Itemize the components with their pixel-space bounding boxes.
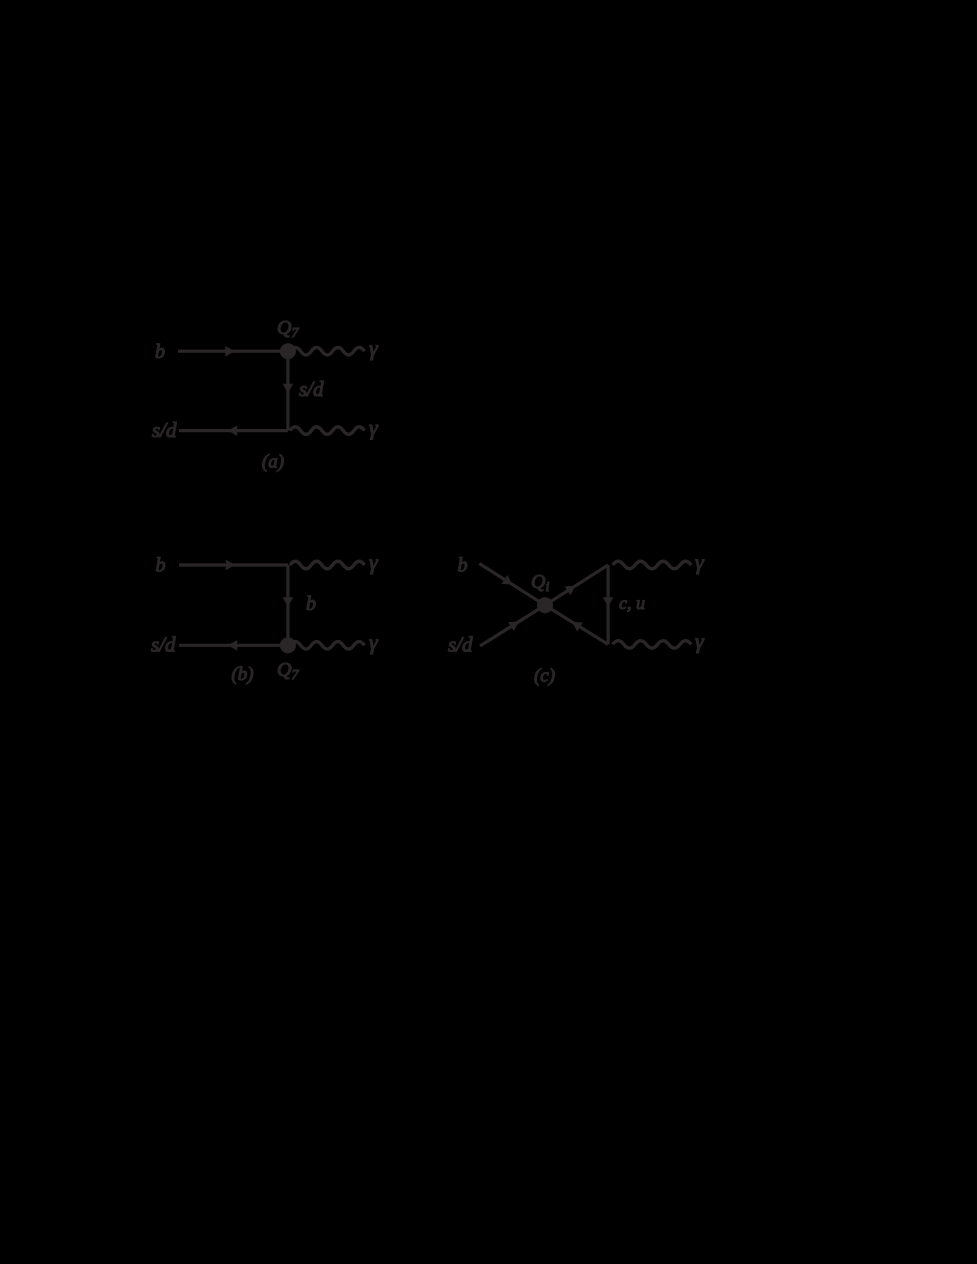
svg-text:γ: γ — [369, 336, 379, 361]
arrow left on s/d line (a) — [228, 425, 238, 436]
wire: loop upper fermion line (c) — [545, 565, 608, 605]
wire: incoming b fermion line (c) — [479, 564, 545, 606]
wire: internal s/d vertical fermion line (a) — [286, 351, 289, 430]
svg-text:γ: γ — [369, 630, 379, 655]
arrow on loop upper line toward top vertex (c) — [565, 586, 576, 596]
svg-text:c, u: c, u — [619, 593, 645, 613]
svg-text:s/d: s/d — [151, 633, 176, 657]
svg-text:b: b — [458, 555, 468, 577]
svg-text:γ: γ — [695, 629, 705, 654]
svg-text:(b): (b) — [231, 664, 253, 685]
svg-text:s/d: s/d — [299, 377, 324, 401]
svg-text:γ: γ — [369, 549, 379, 574]
svg-text:γ: γ — [369, 415, 379, 440]
arrow on loop lower line toward Qi vertex (c) — [572, 622, 583, 631]
photon wavy line bottom (a) — [290, 427, 364, 435]
arrow on b line (c) — [502, 575, 513, 585]
photon wavy line top (b) — [290, 561, 364, 569]
wire: outgoing s/d fermion line (c) — [480, 605, 545, 646]
svg-text:s/d: s/d — [448, 633, 473, 657]
wire: outgoing s/d fermion line (a) — [179, 429, 288, 432]
svg-text:b: b — [155, 341, 165, 363]
svg-text:b: b — [306, 593, 316, 615]
arrow down on loop vertical line (c) — [603, 597, 614, 607]
wire: incoming b fermion line (a) — [178, 350, 288, 353]
wire: internal b vertical fermion line (b) — [286, 565, 289, 645]
photon wavy line bottom (b) — [290, 642, 364, 650]
svg-text:(a): (a) — [262, 452, 284, 473]
vertex dot Q7 (a) — [280, 343, 296, 359]
vertex dot Q7 (b) — [280, 637, 296, 653]
photon wavy line top (c) — [613, 561, 692, 569]
svg-text:b: b — [156, 555, 166, 577]
arrow on b line (b) — [226, 560, 236, 571]
svg-text:s/d: s/d — [152, 418, 177, 442]
wire: outgoing s/d fermion line (b) — [179, 644, 288, 647]
arrow down on internal line (a) — [283, 384, 294, 394]
vertex dot Qi (c) — [537, 597, 553, 613]
svg-text:(c): (c) — [534, 666, 555, 687]
wire: loop vertical c,u fermion line (c) — [606, 565, 609, 644]
wire: loop lower fermion line toward vertex (c) — [545, 605, 608, 644]
wire: incoming b fermion line (b) — [179, 563, 288, 566]
arrow on b line (a) — [225, 346, 235, 357]
arrow down on internal line (b) — [283, 597, 294, 607]
arrow left on s/d line (b) — [228, 640, 238, 651]
arrow on s/d line toward vertex (c) — [508, 621, 519, 630]
photon wavy line bottom (c) — [613, 641, 692, 649]
photon wavy line top (a) — [290, 347, 364, 355]
svg-text:γ: γ — [695, 549, 705, 574]
